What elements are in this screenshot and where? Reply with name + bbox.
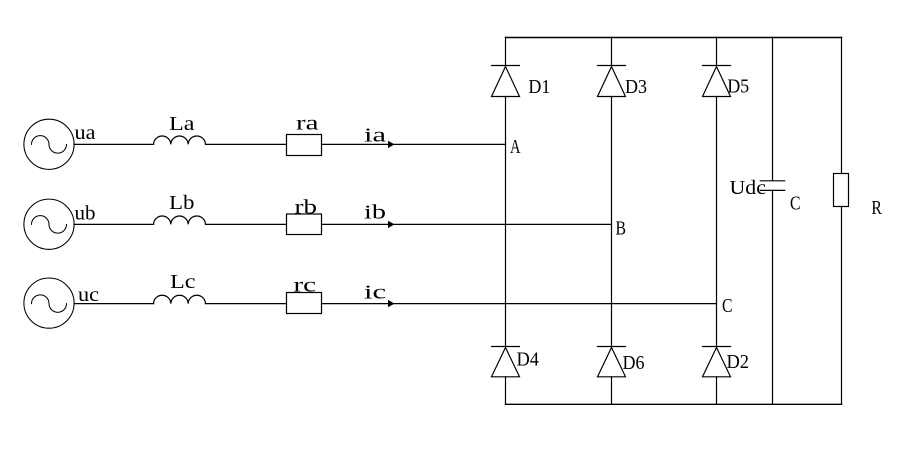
svg-text:B: B [616, 219, 627, 240]
AC source ub [24, 199, 74, 249]
svg-text:ub: ub [75, 204, 96, 225]
current arrow ib [388, 221, 395, 228]
wire R branch top [841, 37, 843, 173]
svg-text:Lc: Lc [170, 272, 196, 293]
wire leg2 D6 to bottom rail [611, 377, 613, 404]
svg-text:rc: rc [294, 276, 317, 297]
svg-text:C: C [790, 194, 801, 215]
svg-text:D3: D3 [625, 77, 647, 98]
resistor rb [287, 214, 322, 235]
svg-text:ic: ic [364, 282, 387, 303]
svg-text:Udc: Udc [730, 178, 767, 199]
wire leg1 top rail to D1 [505, 37, 507, 65]
svg-text:ib: ib [364, 202, 386, 223]
wire capacitor branch top [772, 37, 774, 180]
svg-text:ra: ra [296, 114, 319, 135]
capacitor C [760, 181, 784, 191]
wire leg3 D5 to D2 (through node C) [716, 97, 718, 347]
resistor R [834, 174, 849, 207]
svg-text:ua: ua [75, 123, 96, 144]
svg-text:D2: D2 [727, 352, 750, 373]
inductor Lc [154, 295, 206, 303]
svg-text:D4: D4 [517, 350, 540, 371]
wire ra to node A [322, 143, 506, 145]
current arrow ic [388, 300, 395, 307]
current arrow ia [388, 141, 395, 148]
wire leg1 D4 to bottom rail [505, 377, 507, 404]
svg-text:D1: D1 [528, 77, 550, 98]
top DC rail wire [506, 37, 842, 39]
resistor rc [287, 293, 322, 314]
wire uc to Lc [74, 303, 154, 305]
wire Lc to rc [206, 303, 287, 305]
inductor Lb [154, 216, 206, 224]
svg-text:C: C [722, 296, 733, 317]
wire ua to La [74, 143, 154, 145]
wire rb to node B [322, 223, 612, 225]
wire leg2 top rail to D3 [611, 37, 613, 65]
wire rc to node C [322, 303, 717, 305]
diode D2 [703, 347, 731, 377]
wire leg2 D3 to D6 (through node B) [611, 97, 613, 347]
svg-text:R: R [871, 198, 882, 219]
svg-text:D6: D6 [623, 353, 645, 374]
wire leg3 top rail to D5 [716, 37, 718, 65]
svg-text:uc: uc [78, 285, 99, 306]
diode D3 [598, 66, 626, 97]
svg-text:La: La [169, 114, 195, 135]
AC source uc [24, 278, 74, 328]
diode D5 [703, 66, 731, 97]
AC source ua [24, 119, 74, 169]
diode D4 [492, 347, 520, 377]
inductor La [154, 136, 206, 144]
bottom DC rail wire [506, 403, 842, 405]
wire ub to Lb [74, 223, 154, 225]
svg-text:Lb: Lb [169, 193, 195, 214]
svg-text:ia: ia [364, 126, 387, 147]
diode D6 [598, 347, 626, 377]
wire R branch bottom [841, 207, 843, 405]
wire leg1 D1 to D4 (through node A) [505, 97, 507, 347]
wire leg3 D2 to bottom rail [716, 377, 718, 404]
svg-text:rb: rb [295, 198, 318, 219]
wire La to ra [206, 143, 287, 145]
svg-text:D5: D5 [727, 76, 749, 97]
wire Lb to rb [206, 223, 287, 225]
svg-text:A: A [510, 137, 521, 158]
resistor ra [287, 135, 322, 156]
wire capacitor branch bottom [772, 191, 774, 405]
diode D1 [492, 66, 520, 97]
